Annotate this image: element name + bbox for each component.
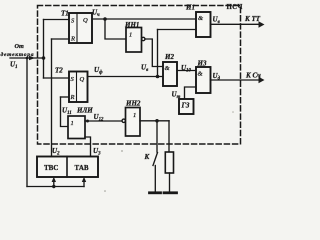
wire ГЗ to И3 lower input: [185, 87, 197, 99]
wire U12 ИЛИ output to ИН2: [85, 120, 122, 122]
svg-text:ИЛИ: ИЛИ: [76, 107, 93, 115]
ground for switch: [150, 191, 161, 194]
node U1 input wire: [10, 57, 44, 59]
flip-flop T2: [69, 72, 88, 103]
junction on U12 wire: [86, 120, 89, 123]
svg-text:К ТТ: К ТТ: [244, 15, 261, 23]
svg-text:От: От: [15, 43, 24, 50]
and-gate И1: [196, 12, 211, 37]
inverter ИН2: [126, 108, 141, 137]
wire arrow into TAB bottom: [83, 181, 85, 187]
speck artifact: [104, 190, 106, 192]
generator ГЗ: [179, 99, 194, 114]
switch К blade: [153, 153, 158, 166]
wire Uф T2.Q to И2 lower input: [88, 76, 164, 78]
junction bottom feed TBC: [52, 185, 55, 188]
wire feedback left vertical: [26, 58, 28, 187]
svg-text:R: R: [70, 94, 75, 101]
svg-text:1: 1: [133, 112, 136, 119]
wire ИН2 output: [140, 120, 169, 122]
wire T1 R input: [52, 38, 70, 40]
svg-text:ГЗ: ГЗ: [181, 102, 190, 110]
wire ИЛИ bottom to U3 riser: [85, 137, 91, 157]
svg-text:И1: И1: [185, 4, 195, 12]
block ТВС ТАВ: [37, 157, 98, 178]
wire U1 riser to T1.S and T2.S: [43, 20, 45, 79]
wire ИН1 output to И2 upper input: [145, 39, 163, 67]
wire switch to ground: [154, 166, 156, 192]
label От детектора: [1, 43, 34, 58]
speck artifact: [232, 111, 234, 113]
svg-text:R: R: [70, 36, 75, 43]
svg-text:ПСЧ: ПСЧ: [227, 4, 243, 11]
arrow on U1 wire: [29, 56, 35, 61]
svg-text:1: 1: [129, 32, 132, 39]
wire U2 riser TBC to T1.R: [51, 39, 53, 157]
ground for resistor: [164, 191, 177, 194]
wire arrow into TBC bottom: [53, 181, 55, 187]
junction feedback at U1 wire: [26, 57, 29, 60]
wire И1 lower input riser: [158, 29, 197, 31]
svg-text:Q: Q: [83, 17, 88, 24]
svg-text:ИН2: ИН2: [125, 100, 141, 108]
svg-text:ИН1: ИН1: [124, 21, 139, 29]
wire down to resistor: [168, 121, 170, 152]
wire U11 riser to ИЛИ input: [61, 97, 69, 127]
svg-text:Т1: Т1: [61, 10, 69, 18]
junction U1/T risers: [42, 56, 46, 60]
wire feedback bottom horizontal: [27, 186, 84, 188]
svg-text:Q: Q: [80, 76, 85, 83]
svg-text:Т2: Т2: [55, 67, 63, 75]
junction К branch: [155, 119, 159, 123]
svg-text:И2: И2: [164, 53, 174, 61]
wire branch to ИН1 input: [105, 19, 126, 39]
svg-text:И3: И3: [197, 60, 207, 68]
svg-text:ТВС: ТВС: [44, 164, 58, 172]
flip-flop T1: [69, 13, 92, 43]
resistor R: [165, 152, 173, 173]
wire Uв И1 output К ТТ: [211, 23, 261, 25]
wire T2 R input: [61, 96, 70, 98]
wire Uд И3 output К Сч: [211, 79, 261, 81]
inverter ИН1: [126, 28, 142, 53]
and-gate И3: [196, 67, 211, 93]
dashed boundary ПСЧ: [38, 6, 241, 145]
svg-text:1: 1: [71, 120, 74, 127]
wire to T2 S input: [44, 77, 70, 79]
svg-text:К Сч: К Сч: [245, 72, 261, 80]
svg-text:детектора: детектора: [1, 51, 34, 58]
junction Uч / ИН1 branch: [103, 17, 107, 21]
and-gate И2: [163, 62, 177, 86]
speck artifact: [121, 150, 123, 152]
or-gate ИЛИ: [68, 116, 85, 139]
wire to T1 S input: [44, 19, 70, 21]
wire down to switch К: [156, 121, 158, 152]
svg-text:ТАВ: ТАВ: [75, 164, 89, 172]
junction Uф / И1 riser: [156, 75, 160, 79]
wire resistor to ground: [169, 173, 171, 191]
wire Uч T1.Q to И1: [92, 18, 196, 20]
wire U10 И2 output to И3: [177, 70, 196, 72]
